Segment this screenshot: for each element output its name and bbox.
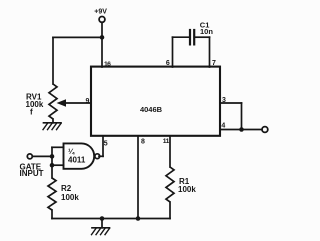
svg-text:+9V: +9V: [94, 9, 107, 16]
svg-text:INPUT: INPUT: [20, 169, 44, 178]
svg-text:100k: 100k: [61, 193, 79, 202]
svg-text:R2: R2: [61, 184, 72, 193]
svg-text:9: 9: [86, 98, 90, 105]
svg-text:f: f: [30, 107, 33, 116]
svg-text:100k: 100k: [178, 185, 196, 194]
svg-text:10n: 10n: [200, 27, 213, 36]
svg-text:4011: 4011: [68, 156, 86, 165]
svg-text:11: 11: [163, 138, 170, 145]
svg-text:3: 3: [222, 97, 226, 104]
svg-text:8: 8: [141, 138, 145, 145]
svg-text:100k: 100k: [26, 100, 44, 109]
svg-text:16: 16: [104, 61, 111, 68]
svg-text:5: 5: [104, 140, 108, 147]
svg-text:4046B: 4046B: [140, 105, 163, 114]
svg-text:7: 7: [212, 60, 216, 67]
svg-text:6: 6: [166, 60, 170, 67]
svg-text:4: 4: [221, 123, 225, 130]
